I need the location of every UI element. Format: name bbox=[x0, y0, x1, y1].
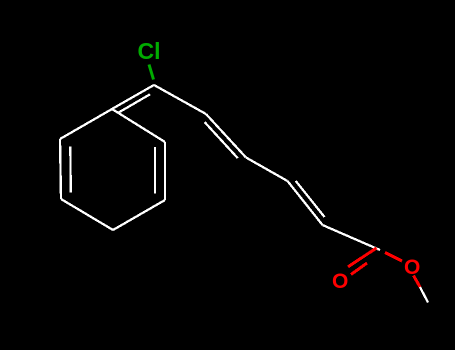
svg-text:Cl: Cl bbox=[138, 38, 161, 64]
chain double bond M1=M2 main bbox=[206, 114, 246, 158]
carbonyl double bond C=O line 1 (red) bbox=[348, 248, 377, 267]
chain double bond M1=M2 inner mark bbox=[205, 122, 238, 158]
chain bond M2-M3 bbox=[246, 158, 288, 182]
ring bond B-R2 bbox=[113, 200, 165, 230]
wire: double bond V1=V2 main line bbox=[112, 85, 154, 109]
ring bond L1-L2 bbox=[60, 139, 61, 199]
ring bond R1-V2 bbox=[112, 109, 165, 142]
ring bond R2-R1 bbox=[164, 142, 166, 200]
carbonyl double bond C=O line 2 (red) bbox=[351, 263, 367, 275]
chain double bond M3=M4 main bbox=[288, 181, 323, 225]
bond C-Cl (green stub) bbox=[149, 65, 154, 80]
bond O-CH3 white half (methyl) bbox=[420, 287, 428, 303]
wire: double bond V1=V2 inner mark bbox=[118, 94, 150, 113]
svg-text:O: O bbox=[404, 256, 420, 279]
bond O-CH3 red half bbox=[414, 276, 421, 288]
chain bond V1-M1 bbox=[154, 85, 206, 114]
ester bond C-O (red) bbox=[385, 253, 402, 262]
chain bond M4-C (to carbonyl carbon) bbox=[323, 225, 381, 250]
ring bond L2-B bbox=[61, 199, 113, 230]
chain double bond M3=M4 inner mark bbox=[296, 181, 325, 217]
svg-text:O: O bbox=[332, 270, 348, 293]
ring bond V2-L1 bbox=[60, 109, 112, 139]
ring inner mark right (R1=R2) bbox=[154, 147, 156, 193]
ring inner mark left (L1=L2) bbox=[69, 147, 72, 193]
